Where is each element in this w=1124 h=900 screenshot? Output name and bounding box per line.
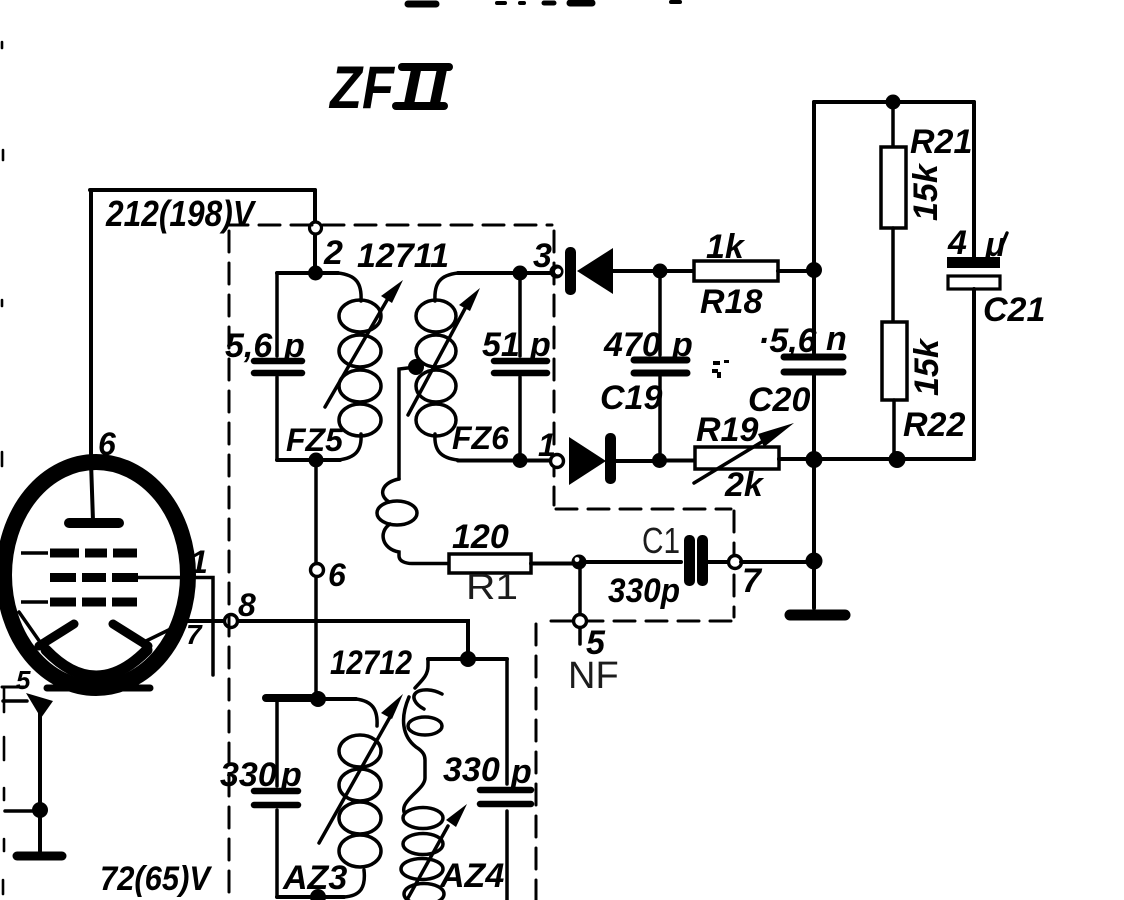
tube anode plate bar xyxy=(69,518,119,528)
label 5 (node) xyxy=(586,624,606,662)
AZ4 tuning arrow xyxy=(408,804,467,898)
tube cathode arc xyxy=(46,650,147,676)
label 212(198)V xyxy=(105,193,257,234)
node 8 circle xyxy=(225,615,238,628)
svg-text:5,6: 5,6 xyxy=(225,327,273,365)
label 330 (AZ3) xyxy=(220,756,277,794)
junction node 4 (R1/C1) xyxy=(572,555,587,570)
svg-text:·5,6: ·5,6 xyxy=(758,322,818,360)
AZ3 left vertical xyxy=(275,699,279,897)
label pin 2 xyxy=(323,234,343,272)
svg-text:n: n xyxy=(826,320,847,358)
junction dot AZ3 top xyxy=(310,691,326,707)
capacitor 51p vertical wire xyxy=(518,273,522,460)
label FZ6 xyxy=(452,420,509,456)
junction dot bus/C1 xyxy=(806,553,823,570)
svg-text:p: p xyxy=(510,753,532,791)
label pin 1 xyxy=(190,544,208,580)
label 470 xyxy=(603,326,661,364)
FZ5 tank left vertical xyxy=(275,273,279,460)
svg-text:C20: C20 xyxy=(748,381,810,419)
svg-text:3: 3 xyxy=(533,237,552,275)
label R1 xyxy=(466,566,518,607)
junction dot R22/bus bottom xyxy=(889,451,906,468)
label 51 xyxy=(482,326,520,364)
tube grid row 3 xyxy=(21,600,137,604)
node 7 circle xyxy=(729,556,742,569)
svg-text:72(65)V: 72(65)V xyxy=(100,860,213,898)
svg-text:330p: 330p xyxy=(608,572,680,610)
svg-text:C19: C19 xyxy=(600,379,662,417)
junction dot FZ5 top xyxy=(308,266,323,281)
junction dot AZ4 top xyxy=(460,651,476,667)
svg-text:2k: 2k xyxy=(724,466,765,504)
AZ3 bottom wire xyxy=(277,895,344,899)
label p (51p) xyxy=(529,326,551,364)
capacitor C19 plates xyxy=(634,360,687,373)
capacitor C19 vertical wire xyxy=(658,271,662,461)
capacitor 51p plates xyxy=(494,361,547,373)
label pin 7 xyxy=(186,619,203,650)
right bus vertical x=814 xyxy=(812,102,816,608)
dashed shield outline 12711/12712 xyxy=(227,225,734,900)
wire node4 to C1 xyxy=(586,560,681,564)
FZ6 secondary tap diamond xyxy=(408,359,424,375)
FZ6 tuning arrow xyxy=(408,288,480,415)
label n (C20) xyxy=(826,320,847,358)
tube cathode leads xyxy=(19,612,187,642)
label 1 (node) xyxy=(538,427,556,463)
svg-text:7: 7 xyxy=(742,562,763,600)
capacitor 330p (AZ4) plates xyxy=(480,790,531,804)
label AZ3 xyxy=(282,859,347,897)
svg-text:8: 8 xyxy=(238,587,256,623)
label R21 xyxy=(910,123,972,161)
FZ5 top wire xyxy=(277,271,338,275)
capacitor C21 (electrolytic) xyxy=(947,102,1000,459)
label 6 (terminal) xyxy=(328,557,346,593)
cathode arrow diamond xyxy=(26,693,53,718)
FZ6 top wire xyxy=(458,271,550,275)
svg-text:1: 1 xyxy=(190,544,208,580)
junction dot R18/bus xyxy=(806,262,822,278)
junction dot D2/C19 xyxy=(652,453,667,468)
label mu (C21) xyxy=(984,226,1007,264)
capacitor C1 plates xyxy=(684,535,708,586)
FZ5 winding xyxy=(338,273,381,460)
terminal 2 circle xyxy=(310,222,322,234)
label p (AZ3 330p) xyxy=(280,756,302,794)
svg-text:p: p xyxy=(280,756,302,794)
svg-text:NF: NF xyxy=(568,655,619,697)
label 330 (AZ4) xyxy=(443,751,500,789)
wire node4 to node5 xyxy=(578,569,582,615)
svg-text:120: 120 xyxy=(452,518,509,556)
capacitor 5,6p plates xyxy=(254,361,302,373)
svg-text:7: 7 xyxy=(186,619,203,650)
svg-text:6: 6 xyxy=(328,557,346,593)
junction dot FZ6 top xyxy=(513,266,528,281)
label 15k (R21) xyxy=(907,162,945,221)
wire D2 to C19 bottom xyxy=(616,459,660,463)
svg-text:330: 330 xyxy=(220,756,277,794)
terminal 6 circle xyxy=(311,564,324,577)
FZ5 bottom wire xyxy=(277,458,340,462)
AZ4 winding xyxy=(401,659,444,900)
junction dot FZ5 bottom xyxy=(309,453,324,468)
label R18 xyxy=(700,283,762,321)
label C1 xyxy=(642,520,680,561)
R19 arrow xyxy=(694,423,794,483)
wire: B+ left vertical down to tube anode xyxy=(91,190,93,521)
label 5,6 (C20) xyxy=(758,322,818,360)
AZ4 right vertical xyxy=(505,659,509,900)
node 3 circle xyxy=(550,265,564,279)
resistor R19 (variable) xyxy=(660,447,814,469)
label pin 8 xyxy=(238,587,256,623)
tube grid row 2 xyxy=(50,573,138,582)
svg-text:12712: 12712 xyxy=(330,644,412,682)
diode D2 cathode bar xyxy=(605,433,616,484)
title ZF II xyxy=(328,54,449,121)
label 12712 xyxy=(330,644,412,682)
FZ5 tuning arrow xyxy=(325,280,403,407)
diode D1 triangle xyxy=(577,248,613,294)
wire: right vertical to terminal 2 xyxy=(313,190,317,273)
wire heater stub left xyxy=(5,809,40,813)
svg-text:4: 4 xyxy=(947,224,967,262)
label p (470p) xyxy=(671,326,693,364)
svg-text:R21: R21 xyxy=(910,123,972,161)
svg-text:AZ4: AZ4 xyxy=(439,857,504,895)
label 72(65)V xyxy=(100,860,213,898)
svg-text:6: 6 xyxy=(98,426,116,462)
svg-text:470: 470 xyxy=(603,326,661,364)
AZ3 winding xyxy=(339,699,381,897)
svg-text:2: 2 xyxy=(323,234,343,272)
node 1 circle xyxy=(551,455,564,468)
label pin 5 (tube bottom) xyxy=(16,665,31,695)
wire C1 to node 7 xyxy=(708,560,729,564)
label p (AZ4 330p) xyxy=(510,753,532,791)
label pin 6 (top) xyxy=(98,426,116,462)
label 15k (R22) xyxy=(908,337,946,396)
label FZ5 xyxy=(286,422,344,458)
svg-text:12711: 12711 xyxy=(357,237,449,275)
label 5,6 xyxy=(225,327,273,365)
svg-text:p: p xyxy=(529,326,551,364)
svg-text:212(198)V: 212(198)V xyxy=(105,193,257,234)
tube V1 envelope xyxy=(4,462,188,688)
svg-text:ZF: ZF xyxy=(328,54,395,121)
label C19 xyxy=(600,379,662,417)
left page edge dashes xyxy=(2,42,4,894)
junction dot D1/C19 xyxy=(653,264,668,279)
tube cathode V dashes xyxy=(39,624,148,646)
AZ4 top wire xyxy=(428,657,507,661)
resistor R22 xyxy=(882,322,907,459)
wire D1 to C19 xyxy=(613,269,660,273)
wire node5 stub xyxy=(578,628,582,644)
label 1k xyxy=(706,228,746,266)
AZ3 tank top wire xyxy=(266,698,356,699)
svg-text:C1: C1 xyxy=(642,520,680,561)
tube bottom smear bar xyxy=(47,685,150,692)
label NF xyxy=(568,655,619,697)
svg-text:1k: 1k xyxy=(706,228,746,266)
svg-text:1: 1 xyxy=(538,427,556,463)
svg-text:AZ3: AZ3 xyxy=(282,859,347,897)
junction dot C20/bus bottom xyxy=(806,451,823,468)
wire cathode bottom stub xyxy=(2,687,27,701)
svg-text:330: 330 xyxy=(443,751,500,789)
svg-text:15k: 15k xyxy=(907,162,945,221)
svg-text:15k: 15k xyxy=(908,337,946,396)
wire terminal 6 vertical xyxy=(314,460,318,699)
svg-text:5: 5 xyxy=(16,665,31,695)
label 120 xyxy=(452,518,509,556)
wire 8 corner down to AZ4 xyxy=(462,621,468,659)
label R19 xyxy=(696,411,758,449)
svg-text:R1: R1 xyxy=(466,566,518,607)
svg-text:p: p xyxy=(671,326,693,364)
svg-text:FZ5: FZ5 xyxy=(286,422,344,458)
wire node7 to bus xyxy=(741,560,814,564)
svg-text:p: p xyxy=(283,327,305,365)
wire pin1 from grid2 xyxy=(136,578,213,676)
top edge torn line marks xyxy=(408,2,680,4)
svg-text:51: 51 xyxy=(482,326,520,364)
resistor R18 xyxy=(660,261,814,281)
label p (5,6p) xyxy=(283,327,305,365)
label 7 (node) xyxy=(742,562,763,600)
FZ6 winding xyxy=(416,273,458,460)
junction dot FZ6 bottom xyxy=(513,453,528,468)
label C21 xyxy=(983,291,1045,329)
FZ6 secondary coil to R1 xyxy=(377,367,449,564)
resistor R1 xyxy=(449,554,572,573)
label AZ4 xyxy=(439,857,504,895)
svg-text:FZ6: FZ6 xyxy=(452,420,509,456)
label 12711 xyxy=(357,237,449,275)
ground (bottom left) xyxy=(17,852,62,861)
capacitor C20 plates xyxy=(784,357,843,372)
label R22 xyxy=(903,406,965,444)
junction dot AZ3 bottom xyxy=(310,889,326,900)
svg-text:R22: R22 xyxy=(903,406,965,444)
junction dot heater xyxy=(32,802,48,818)
AZ3 tuning arrow xyxy=(319,694,403,843)
label 3 xyxy=(533,237,552,275)
tube grid row 1 xyxy=(21,551,137,555)
node 5 circle xyxy=(574,615,587,628)
FZ6 bottom wire xyxy=(458,459,550,463)
wire node8 horizontal xyxy=(187,619,462,623)
top bus wire xyxy=(814,100,974,104)
svg-text:R18: R18 xyxy=(700,283,762,321)
resistor R21 xyxy=(881,102,906,322)
label 330p (C1) xyxy=(608,572,680,610)
junction dot top bus xyxy=(886,95,901,110)
diode D1 cathode bar xyxy=(565,247,576,295)
capacitor 330p (AZ3) plates xyxy=(254,791,298,805)
wire heater vertical xyxy=(38,712,42,851)
bottom bus wire xyxy=(779,457,974,461)
svg-text:C21: C21 xyxy=(983,291,1045,329)
label 4 (C21) xyxy=(947,224,967,262)
label C20 xyxy=(748,381,810,419)
label 2k xyxy=(724,466,765,504)
wire: B+ box top xyxy=(90,188,315,192)
ground (right) xyxy=(790,610,845,621)
diode D2 triangle xyxy=(569,437,606,485)
